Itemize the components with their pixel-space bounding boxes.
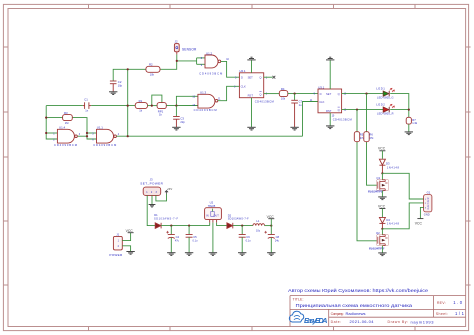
nand gate U1.2 [205, 55, 221, 68]
svg-text:LED2: LED2 [376, 102, 385, 106]
junction C8 [270, 225, 272, 227]
wire long to U3.1 CLK [303, 102, 319, 137]
svg-text:0.1u: 0.1u [246, 240, 251, 243]
svg-text:1N4148: 1N4148 [387, 166, 400, 170]
junction C4 [170, 225, 172, 227]
svg-text:CD4093BCM: CD4093BCM [194, 108, 218, 112]
svg-text:10k: 10k [281, 97, 286, 101]
svg-text:22p: 22p [180, 120, 185, 124]
svg-text:U1.2: U1.2 [206, 51, 212, 55]
connector J1 POWER [113, 236, 122, 250]
svg-text:C1: C1 [84, 98, 88, 102]
svg-text:CLK: CLK [241, 85, 246, 89]
junction Q1 drain node [381, 172, 383, 174]
svg-text:78L05: 78L05 [208, 204, 216, 208]
wire LED1 cathode [390, 94, 409, 118]
power VCC supply node [270, 219, 272, 226]
svg-text:U1.3: U1.3 [200, 91, 206, 95]
U2 pin legs [210, 220, 217, 223]
svg-text:SENSOR: SENSOR [182, 48, 197, 52]
wire LED2 cathode [390, 109, 409, 111]
ground C3 [172, 127, 180, 130]
LED2 red [383, 104, 394, 112]
wire R3 right to output node [72, 118, 96, 139]
svg-text:Q: Q [338, 108, 340, 112]
wire vertical x127.7 [127, 69, 129, 136]
power VCC bottom right (inverted) [417, 218, 423, 220]
svg-text:L1: L1 [256, 219, 259, 223]
svg-text:RST: RST [248, 94, 254, 98]
ground Q2 [378, 253, 386, 256]
resistor R3 [63, 115, 73, 121]
wire Q2 source to ground [381, 246, 383, 253]
svg-text:SET: SET [248, 76, 254, 80]
svg-text:REV:: REV: [437, 301, 446, 305]
ground C7 [290, 127, 298, 130]
svg-text:Q1: Q1 [376, 176, 380, 180]
transistor Q1 [381, 173, 383, 180]
junction LED cathodes [408, 109, 410, 111]
svg-text:Date:: Date: [331, 320, 342, 324]
wire R5 chain to Q2 gate [356, 110, 358, 132]
wire U1.1 input top [87, 132, 97, 134]
svg-text:10p: 10p [118, 84, 123, 88]
wire U1.4 output [78, 135, 87, 137]
svg-text:R3: R3 [64, 111, 68, 115]
ground R7 [405, 132, 413, 135]
trimmer RP1 [157, 103, 166, 109]
svg-text:CD4093BCM: CD4093BCM [93, 143, 117, 147]
svg-text:GND: GND [424, 213, 430, 217]
svg-text:VCC: VCC [126, 229, 134, 233]
ground C6 [238, 253, 246, 256]
ground above U3.1 SET (inverted) [329, 60, 331, 89]
power +5V flag [165, 191, 168, 194]
wire U2.1 Q no-connect [264, 76, 273, 78]
wire U3.1 Q to LED1 [342, 93, 383, 95]
svg-text:Sheet:: Sheet: [436, 312, 448, 316]
transistor Q2 [381, 229, 383, 235]
svg-text:CD4093BCM: CD4093BCM [199, 72, 223, 76]
junction sensor node [176, 60, 178, 62]
flip-flop U3.1 [318, 89, 342, 113]
svg-text:J2: J2 [175, 40, 178, 44]
svg-text:CD4013BCM: CD4013BCM [255, 100, 275, 104]
svg-text:1.3k: 1.3k [412, 121, 418, 125]
ground Q1 [378, 197, 386, 200]
svg-text:LED-0805_G: LED-0805_G [377, 95, 394, 99]
wire J1 pin2 to ground [122, 246, 130, 251]
svg-text:Company:: Company: [331, 312, 344, 316]
wire Q1 drain to G1 pin1 [382, 173, 423, 199]
nand gate U1.3 [198, 94, 218, 108]
LED1 green [383, 88, 394, 96]
flip-flop U2.1 [239, 73, 263, 98]
junction R6 top [365, 93, 367, 95]
wire R3 left [46, 117, 62, 119]
ground C8 [267, 253, 275, 256]
svg-text:1.0: 1.0 [453, 300, 462, 305]
resistor R1 [135, 103, 147, 109]
resistor R4 [279, 91, 288, 97]
wire U2 gnd leg [212, 223, 214, 253]
capacitor C4 polarized [170, 226, 172, 235]
EasyEDA logo [289, 311, 327, 325]
svg-text:1/1: 1/1 [455, 311, 465, 316]
svg-text:TITLE:: TITLE: [293, 298, 304, 302]
svg-text:SET: SET [326, 92, 332, 96]
svg-text:Принципиальная схема емкостног: Принципиальная схема емкостного датчика [296, 303, 413, 308]
svg-text:R2: R2 [149, 63, 153, 67]
svg-text:1M: 1M [65, 121, 69, 125]
ground C2 [109, 92, 117, 95]
svg-text:Radionews: Radionews [346, 311, 366, 316]
no-connect X [273, 76, 276, 79]
svg-text:LED1: LED1 [376, 86, 385, 90]
inductor L1 [253, 224, 265, 226]
junction dots left section [45, 68, 177, 137]
wire Q1 source to ground [381, 191, 383, 197]
svg-text:IN: IN [206, 214, 209, 218]
svg-text:C3: C3 [180, 116, 184, 120]
svg-text:VCC: VCC [378, 204, 386, 208]
resistor R7 [406, 117, 411, 124]
svg-text:U2.1: U2.1 [239, 69, 245, 73]
svg-text:10u: 10u [256, 229, 261, 232]
capacitor C2 [110, 81, 117, 91]
svg-text:U1.1: U1.1 [97, 126, 103, 130]
wire rail D1 to U2 in [161, 225, 210, 227]
connector G1 [424, 195, 432, 212]
svg-text:G1: G1 [427, 191, 431, 195]
ground U2 [209, 253, 217, 256]
svg-text:CD4093BCM: CD4093BCM [54, 143, 78, 147]
capacitor C1 [83, 102, 91, 109]
svg-text:CD4013BCM: CD4013BCM [333, 117, 353, 121]
wire R1 to RP1 [148, 105, 158, 107]
junction C7 node [294, 93, 296, 95]
svg-text:Drawn By:: Drawn By: [388, 320, 409, 324]
wire RP1 wiper loop [152, 95, 162, 106]
wire U3.1 Qbar to LED2 [342, 109, 383, 111]
wire top C2 rail [113, 69, 146, 81]
ground J3 [149, 205, 156, 208]
svg-text:Q: Q [259, 92, 261, 96]
capacitor C6 [241, 226, 243, 235]
svg-text:VCC: VCC [378, 147, 386, 151]
sensor connector J2 [174, 44, 179, 55]
wire vertical left node [46, 106, 57, 139]
wire U2.1 Qbar to R4 [264, 93, 280, 95]
wire U2 out leg [217, 223, 227, 226]
svg-text:D: D [320, 92, 322, 96]
svg-text:J1: J1 [116, 233, 119, 237]
svg-text:R1: R1 [139, 99, 143, 103]
ground below U2.1 RST [251, 98, 253, 127]
svg-text:R4: R4 [281, 87, 285, 91]
wire D2 to L1 [233, 225, 253, 227]
resistor R6 [364, 132, 369, 142]
svg-text:RST: RST [326, 109, 332, 113]
svg-text:10k: 10k [150, 73, 155, 77]
wire U1.1 output long horizontal [116, 135, 302, 137]
wire R6 chain to Q1 gate [366, 94, 368, 132]
ground C5 [185, 253, 193, 256]
wire node osc-input [46, 105, 83, 107]
junction C5 [188, 225, 190, 227]
svg-text:CLK: CLK [319, 100, 324, 104]
wire J3 pin2 to ground [151, 195, 153, 204]
capacitor C7 [294, 94, 296, 101]
svg-text:IRLML6344TRPBF: IRLML6344TRPBF [368, 191, 384, 193]
svg-text:C2: C2 [118, 80, 122, 84]
wire J1 pin1 to VCC [122, 233, 130, 241]
wire R2 right [160, 61, 177, 69]
resistor R5 [354, 132, 359, 142]
junction C6 [241, 225, 243, 227]
svg-text:24u: 24u [275, 240, 280, 243]
svg-text:U3.1: U3.1 [318, 85, 324, 89]
svg-text:VCC: VCC [415, 222, 423, 226]
wire R4 to U3.1 D [288, 93, 318, 95]
svg-text:47u: 47u [175, 240, 180, 243]
capacitor C3 [175, 106, 177, 117]
wire branch to U1.3 pin12 [176, 96, 198, 105]
diode D2 [227, 223, 233, 229]
wire L1 to VCC node [265, 225, 272, 227]
wire U1.3 output to U2.1 CLK [218, 86, 240, 100]
wire J3 pin1 down to rail [147, 195, 155, 225]
nand gate U1.4 [57, 129, 77, 143]
svg-text:VCC: VCC [267, 215, 275, 219]
svg-text:POWER: POWER [109, 253, 123, 257]
ground above U2.1 SET (inverted) [251, 60, 253, 73]
svg-text:D: D [241, 76, 243, 80]
wire sensor node to U1.2 inputs [177, 60, 197, 62]
title block texts [293, 298, 448, 324]
capacitor C5 [188, 226, 190, 235]
svg-text:D3: D3 [386, 162, 390, 166]
wire G1 pin3 to VCC [420, 207, 423, 218]
ground C4 [167, 253, 175, 256]
svg-text:U1.4: U1.4 [59, 126, 65, 130]
svg-text:Q2: Q2 [376, 231, 380, 235]
connector J3 SET_POWER [143, 187, 161, 195]
svg-text:R7: R7 [412, 118, 416, 122]
svg-text:Q: Q [338, 92, 340, 96]
TITLE_BLOCK [290, 296, 466, 327]
wire U2 in leg [209, 223, 211, 226]
junction R5 top [356, 109, 358, 111]
svg-text:SD103AWS-7-F: SD103AWS-7-F [228, 218, 249, 221]
svg-text:GENER: GENER [426, 197, 430, 209]
diode D4 [379, 217, 385, 228]
svg-text:naym1993: naym1993 [411, 319, 435, 324]
svg-text:Автор схемы Юрий Сухомлинов: h: Автор схемы Юрий Сухомлинов: https://vk.… [288, 288, 429, 293]
diode D3 [379, 159, 385, 173]
svg-text:1N4148: 1N4148 [387, 222, 400, 226]
ground J1 [126, 252, 134, 255]
nand gate U1.1 [97, 129, 117, 143]
svg-text:D4: D4 [386, 218, 390, 222]
wire sensor down [176, 54, 178, 61]
power VCC J1 [128, 232, 134, 234]
wire J3 pin3 to +5V [156, 194, 167, 201]
svg-text:C7: C7 [299, 100, 303, 104]
wire Q2 drain to G1 pin2 [382, 203, 423, 229]
svg-text:SET_POWER: SET_POWER [140, 181, 163, 185]
svg-text:LED-0805_R: LED-0805_R [377, 111, 394, 115]
svg-text:2021-06-04: 2021-06-04 [350, 319, 375, 324]
wire RP1 right to U1.3 pin13 [166, 105, 198, 107]
svg-text:0.1u: 0.1u [193, 240, 198, 243]
ground below U3.1 RST [329, 113, 331, 126]
capacitor C8 polarized [270, 226, 272, 235]
wire U1.2 output to U2.1 D [221, 61, 240, 77]
wire C1 to R1 [91, 105, 135, 107]
svg-text:Q: Q [259, 76, 261, 80]
wire U1.4 input1 [46, 132, 57, 134]
regulator U2 78L05 [205, 208, 222, 220]
diode D1 [155, 223, 161, 229]
junction Q2 drain node [381, 228, 383, 230]
resistor R2 [146, 66, 160, 72]
svg-text:SD103AWS-7-F: SD103AWS-7-F [154, 217, 178, 220]
wire R7 to ground [408, 124, 410, 132]
svg-text:EasyEDA: EasyEDA [304, 316, 328, 325]
svg-text:+5V: +5V [167, 187, 172, 191]
